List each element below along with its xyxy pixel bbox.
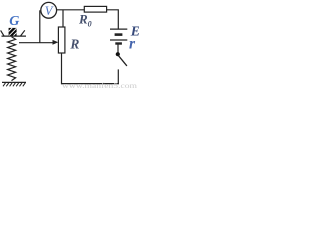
- svg-text:www.manfen5.com: www.manfen5.com: [62, 82, 138, 89]
- wire: top tap down to resistor R: [62, 10, 64, 27]
- svg-text:G: G: [9, 14, 19, 29]
- wire: voltmeter left terminal down to wiper: [39, 10, 41, 42]
- tray right flange: [21, 30, 25, 36]
- switch S: open blade: [118, 56, 127, 66]
- weight block (hatched box): [9, 28, 17, 36]
- switch S: pivot dot: [116, 52, 120, 56]
- wire: switch lower terminal down to bottom wire: [117, 69, 119, 84]
- slider arrow (wiper of R): [19, 40, 58, 45]
- wire: bottom horizontal: [61, 83, 119, 85]
- wire: voltmeter right to R0: [57, 9, 85, 11]
- wire: battery to switch dot: [117, 44, 119, 54]
- svg-text:R: R: [69, 37, 79, 52]
- svg-text:r: r: [129, 35, 136, 52]
- spring: [8, 37, 16, 81]
- spring fixed base: [2, 82, 26, 86]
- resistor R0 (horizontal box): [84, 6, 106, 12]
- wire: R bottom down: [61, 53, 63, 84]
- voltmeter U1 circle: [41, 2, 57, 18]
- resistor R (vertical box): [58, 27, 65, 53]
- battery E,r (two cells): [110, 29, 127, 43]
- tray left flange: [1, 30, 4, 36]
- tray platform: [2, 35, 27, 37]
- wire: R0 right to top-right corner and down to battery: [107, 10, 119, 29]
